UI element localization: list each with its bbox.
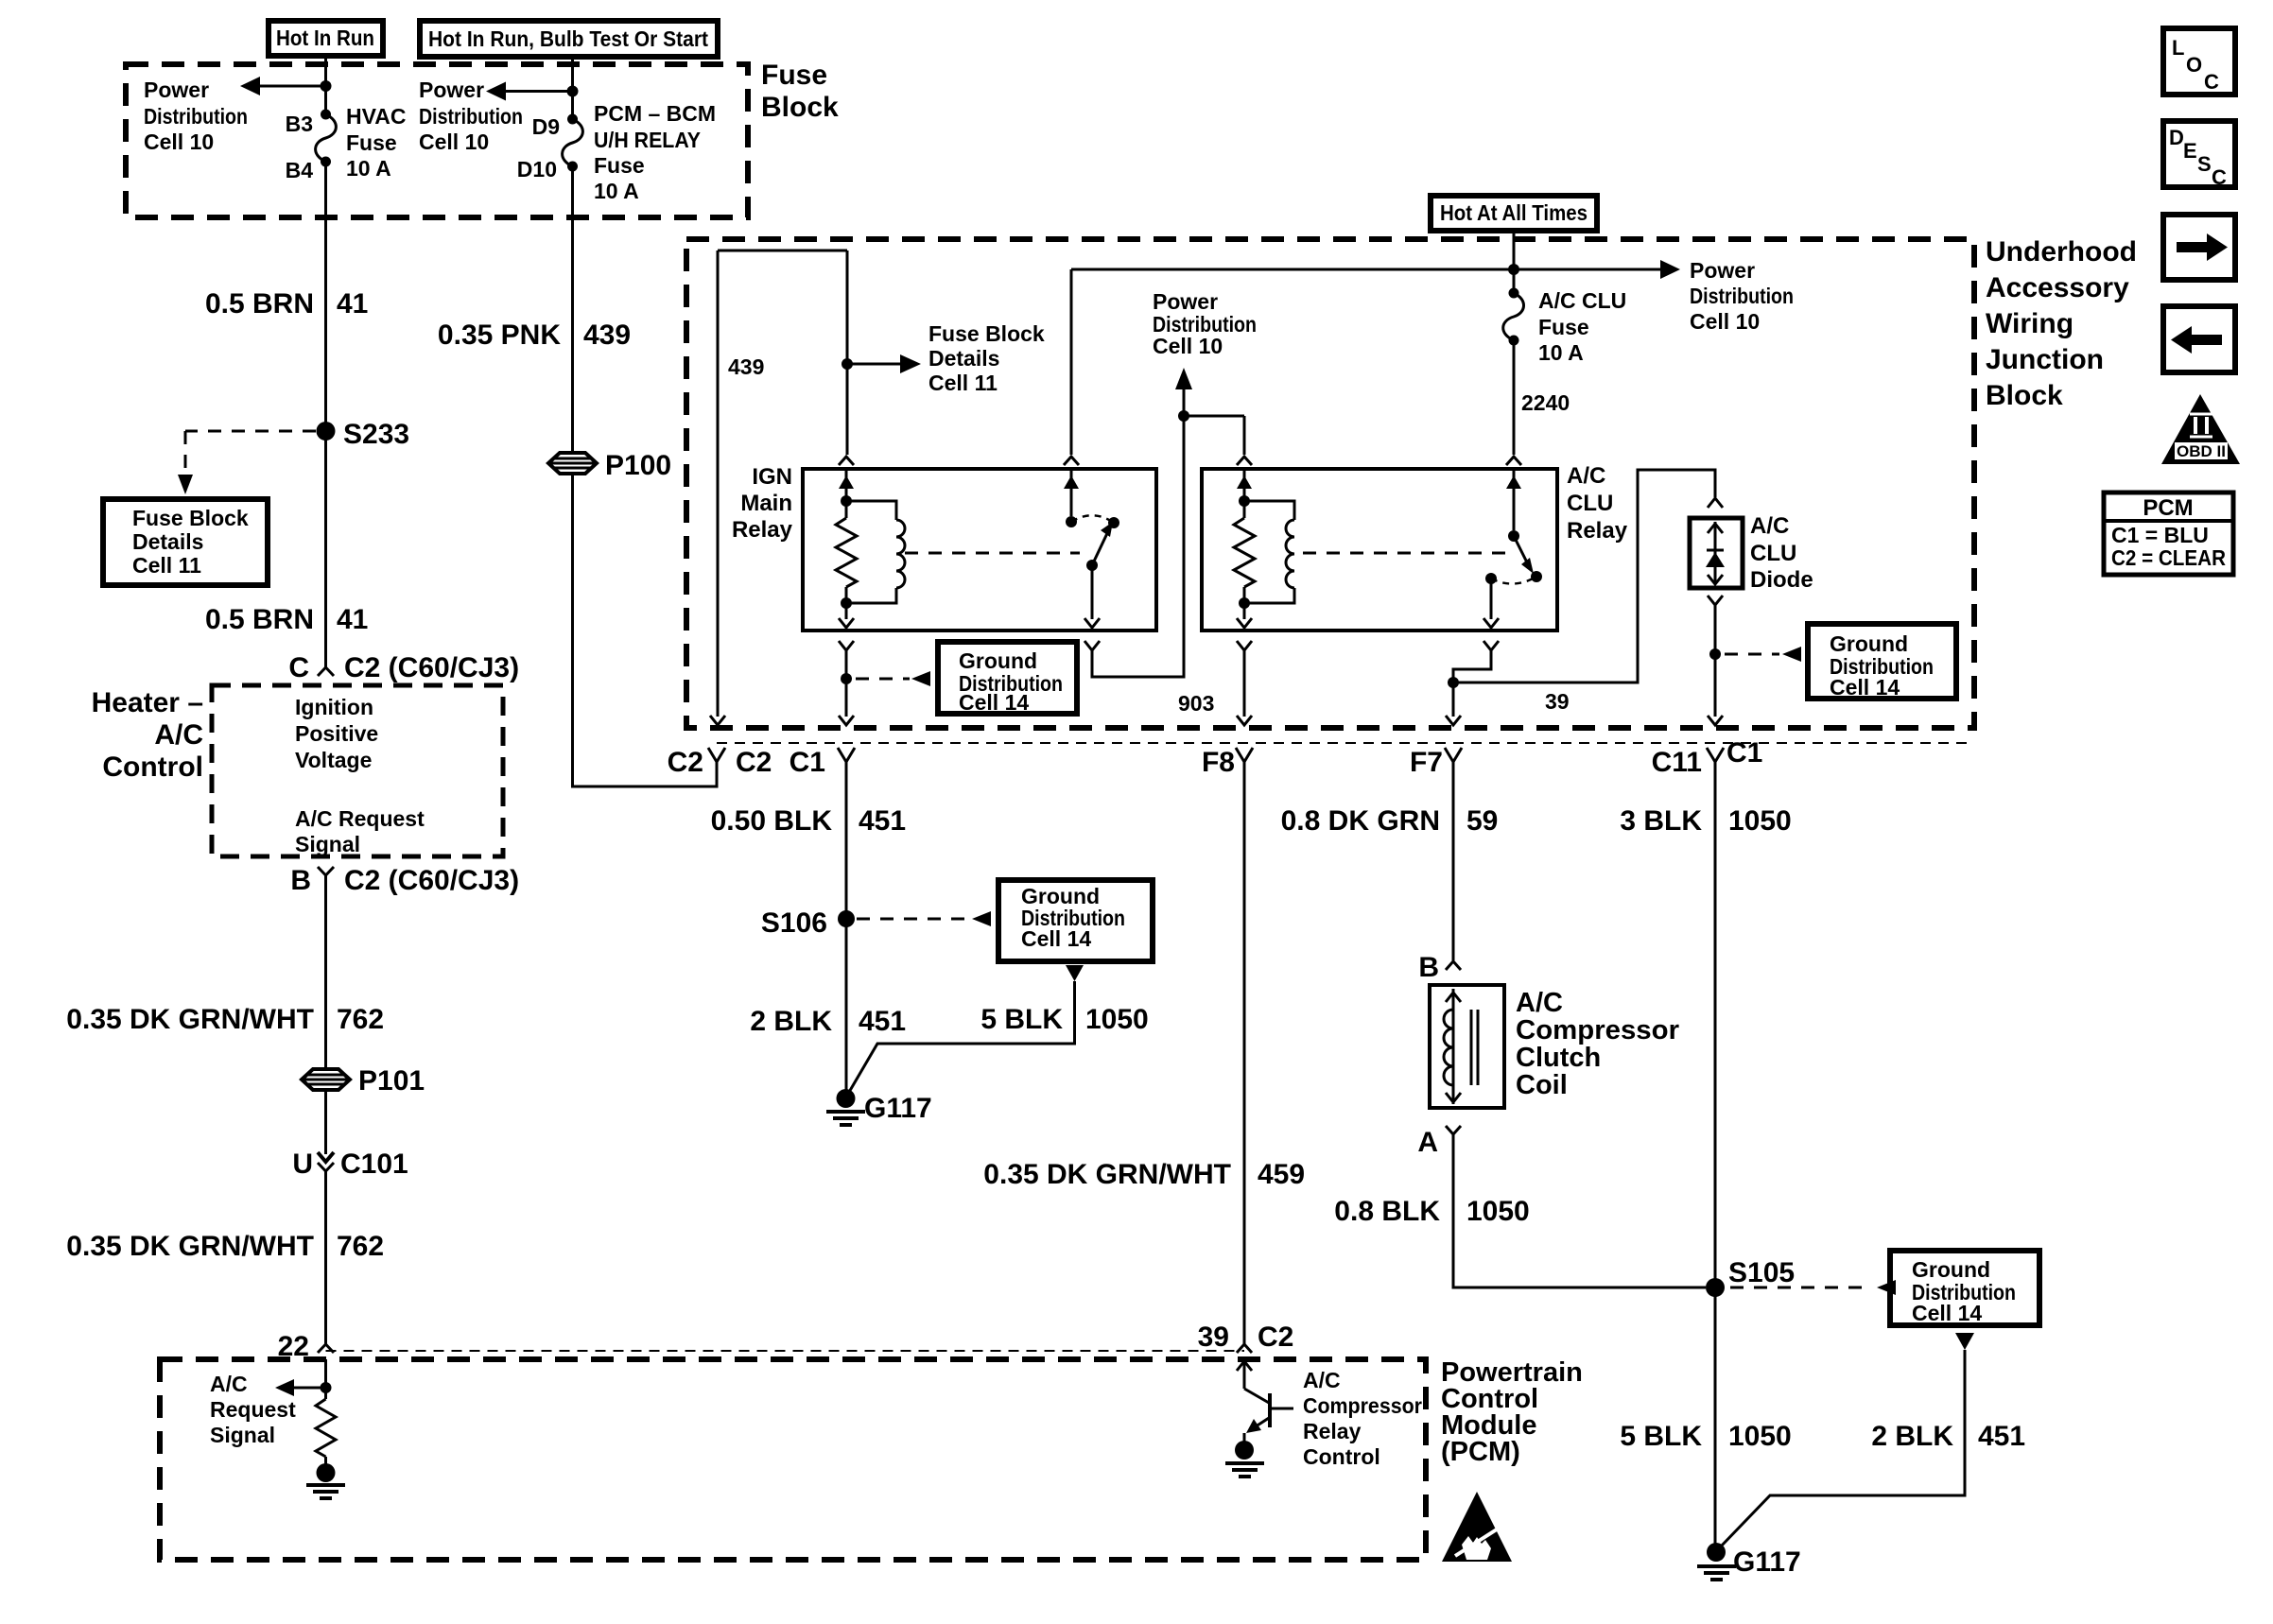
svg-text:PCM – BCM: PCM – BCM [594, 101, 716, 126]
label: 0.8 BLK 1050 [1334, 1196, 1529, 1227]
svg-text:Fuse: Fuse [1538, 315, 1589, 339]
svg-text:C2: C2 [1258, 1322, 1293, 1353]
wire: 3 BLK 1050 [1714, 761, 1717, 1287]
coil: IGN relay winding [841, 501, 905, 609]
svg-text:0.35 PNK: 0.35 PNK [438, 320, 561, 351]
coil: A/C relay winding [1239, 501, 1294, 609]
svg-text:Ground: Ground [1830, 631, 1908, 656]
svg-text:E: E [2183, 139, 2197, 163]
fuse block dashed box [126, 64, 748, 217]
svg-text:C2 = CLEAR: C2 = CLEAR [2111, 545, 2226, 570]
svg-text:41: 41 [337, 288, 368, 320]
svg-text:C1 = BLU: C1 = BLU [2111, 523, 2209, 547]
label: Heater - A/C Control [92, 687, 203, 783]
label: A/C CLU Relay [1567, 463, 1628, 544]
dashed reference: ground distribution (diode) [1725, 647, 1801, 662]
svg-text:A/C: A/C [1303, 1368, 1341, 1392]
svg-text:Cell 10: Cell 10 [1153, 334, 1223, 358]
pin: IGN relay switch top [1064, 457, 1079, 465]
box: Ground Distribution Cell 14 (diode) [1808, 624, 1956, 700]
svg-text:S105: S105 [1728, 1257, 1795, 1288]
pin A of clutch coil [1417, 1126, 1461, 1158]
svg-text:903: 903 [1178, 691, 1214, 716]
svg-text:Signal: Signal [210, 1423, 275, 1447]
ground: transistor emitter [1225, 1433, 1264, 1477]
wire: 2240 [1513, 340, 1516, 455]
svg-text:A/C: A/C [210, 1372, 248, 1396]
svg-text:U: U [292, 1149, 313, 1180]
label: 0.35 DK GRN/WHT 459 [983, 1159, 1305, 1190]
svg-text:Fuse Block: Fuse Block [928, 321, 1045, 346]
label: Powertrain Control Module (PCM) [1441, 1357, 1583, 1467]
svg-text:S: S [2197, 152, 2212, 176]
svg-text:Distribution: Distribution [1690, 284, 1794, 308]
wire: P100 down and over to junction block C2 [573, 475, 718, 786]
pin B of connector C2 (C60/CJ3) [290, 865, 519, 896]
svg-text:10 A: 10 A [594, 179, 639, 203]
svg-text:A/C: A/C [1567, 463, 1605, 489]
label: 2 BLK 451 [750, 1006, 906, 1037]
svg-text:Hot In Run, Bulb Test Or Start: Hot In Run, Bulb Test Or Start [428, 26, 708, 51]
icon: right arrow box [2163, 215, 2235, 280]
ground G117 (right) [1697, 1543, 1801, 1580]
label: A/C Compressor Relay Control [1303, 1368, 1422, 1469]
label: 0.35 PNK 439 [438, 320, 631, 351]
svg-text:Cell 14: Cell 14 [1830, 675, 1900, 700]
arrow: power distribution cell 10 (middle, up) [1175, 368, 1192, 416]
pin F8 of junction block [1202, 747, 1253, 778]
wire: 0.5 BRN 41 (fuse to S233) [324, 162, 327, 431]
svg-text:Request: Request [210, 1397, 296, 1422]
label: A/C CLU Fuse 10 A [1538, 288, 1626, 365]
svg-text:Cell 14: Cell 14 [1021, 926, 1091, 951]
svg-text:C: C [288, 652, 309, 683]
svg-text:0.8 DK GRN: 0.8 DK GRN [1281, 805, 1440, 837]
svg-text:S106: S106 [761, 907, 827, 939]
svg-text:HVAC: HVAC [346, 104, 406, 129]
ESD warning triangle [1442, 1492, 1512, 1562]
svg-text:B: B [290, 865, 311, 896]
coil L1: A/C Compressor Clutch Coil [1430, 985, 1504, 1108]
svg-text:Cell 11: Cell 11 [928, 371, 998, 395]
label: A/C CLU Diode [1750, 513, 1813, 593]
Heater A/C Control dashed box [212, 685, 503, 856]
box: Fuse Block Details Cell 11 (left) [103, 499, 268, 585]
wire: 0.8 DK GRN 59 [1452, 761, 1455, 960]
svg-text:Positive: Positive [295, 721, 378, 746]
svg-text:Cell 10: Cell 10 [1690, 309, 1760, 334]
label: Ignition Positive Voltage [295, 695, 378, 772]
svg-text:451: 451 [859, 1006, 906, 1037]
svg-text:D10: D10 [517, 157, 557, 181]
svg-text:C: C [2204, 70, 2219, 94]
resistor: IGN relay (parallel) [836, 501, 857, 603]
wire: 39 branch to A/C CLU diode [1453, 470, 1715, 682]
svg-text:Compressor: Compressor [1516, 1015, 1679, 1045]
dashed reference: ground distribution (IGN relay) [856, 671, 930, 686]
IGN relay coil feed (inside) [839, 469, 854, 507]
ground G117 (middle) [826, 1089, 932, 1125]
svg-text:Cell 14: Cell 14 [959, 690, 1029, 715]
A/C relay coil feed (inside) [1237, 469, 1252, 507]
IGN relay switch feed (inside) [1064, 469, 1079, 516]
label: 0.5 BRN 41 (second) [205, 604, 368, 635]
pin B of clutch coil [1418, 952, 1461, 983]
label: Power Distribution Cell 10 (right) [1690, 258, 1794, 334]
svg-text:A/C CLU: A/C CLU [1538, 288, 1626, 313]
svg-text:Cell 10: Cell 10 [144, 130, 214, 154]
svg-text:(PCM): (PCM) [1441, 1437, 1520, 1467]
label: Power Distribution Cell 10 (PCM-BCM side) [419, 78, 523, 154]
banner: Hot In Run, Bulb Test Or Start [420, 21, 718, 57]
svg-text:59: 59 [1466, 805, 1498, 837]
svg-text:0.5 BRN: 0.5 BRN [205, 604, 314, 635]
wire: PCM-BCM fuse feed [567, 57, 579, 119]
dashed reference: ground distribution (S106) [857, 911, 991, 926]
svg-text:U/H RELAY: U/H RELAY [594, 128, 701, 152]
svg-text:B: B [1418, 952, 1439, 983]
wire: 0.35 DK GRN/WHT 459 [1243, 761, 1246, 1344]
A/C relay coil ground leg to F8 [1237, 603, 1252, 725]
wire: 5 BLK 1050 to G117 [1714, 1287, 1717, 1548]
wire: 0.35 PNK 439 to P100 [571, 166, 574, 452]
svg-text:Distribution: Distribution [144, 104, 248, 129]
svg-text:39: 39 [1198, 1322, 1229, 1353]
label: 2 BLK 451 (right) [1871, 1421, 2025, 1452]
label: Power Distribution Cell 10 (middle) [1153, 289, 1257, 358]
fuse: A/C CLU 10A [1503, 288, 1524, 346]
svg-text:Ground: Ground [1912, 1257, 1990, 1282]
pin C1 of junction block (451) [789, 747, 855, 778]
svg-text:F7: F7 [1410, 747, 1443, 778]
svg-text:0.35 DK GRN/WHT: 0.35 DK GRN/WHT [66, 1231, 314, 1262]
label: Underhood Accessory Wiring Junction Block [1986, 236, 2137, 411]
label: 5 BLK 1050 (right) [1620, 1421, 1791, 1452]
svg-text:Fuse Block: Fuse Block [132, 506, 249, 530]
relay U2: A/C CLU Relay box [1202, 469, 1557, 631]
hot feed bus (horizontal) [1071, 264, 1662, 275]
dashed actuator link: A/C relay [1303, 552, 1508, 555]
label: 0.35 DK GRN/WHT 762 [66, 1004, 384, 1035]
pass-through grommet P100 [548, 450, 671, 481]
svg-text:S233: S233 [343, 419, 409, 450]
svg-text:Coil: Coil [1516, 1070, 1568, 1100]
wire: hot in run feed into fuse block [321, 56, 332, 114]
connector C101 pin U [292, 1149, 408, 1180]
svg-text:B3: B3 [286, 112, 313, 136]
transistor Q1: A/C compressor relay driver [1237, 1359, 1293, 1433]
table: PCM connector colors [2104, 492, 2233, 575]
svg-text:439: 439 [583, 320, 631, 351]
svg-text:Power: Power [144, 78, 209, 102]
banner: Hot At All Times [1431, 196, 1597, 231]
wire: 0.35 DK GRN/WHT 762 (lower) [324, 1171, 327, 1344]
svg-text:P100: P100 [605, 450, 671, 481]
label: 0.50 BLK 451 [711, 805, 906, 837]
pin: diode bottom [1708, 596, 1723, 605]
switch: IGN relay contacts [1066, 515, 1119, 571]
svg-text:B4: B4 [286, 158, 314, 182]
A/C relay switch output leg to F7 [1446, 579, 1499, 725]
resistor: A/C request pull-up [316, 1399, 336, 1457]
label: PCM-BCM U/H RELAY Fuse 10 A [594, 101, 716, 203]
pin F7 of junction block [1410, 747, 1462, 778]
wire: 0.8 BLK 1050 to S105 [1453, 1134, 1706, 1287]
icon: OBD II triangle [2161, 394, 2240, 464]
arrow: power distribution cell 10 (left, PCM-BCM) [486, 82, 573, 101]
svg-text:G117: G117 [864, 1093, 932, 1124]
PCM dashed box [160, 1359, 1426, 1560]
label: A/C Compressor Clutch Coil [1516, 988, 1679, 1100]
svg-text:Hot In Run: Hot In Run [276, 26, 374, 50]
svg-text:Control: Control [1303, 1444, 1380, 1469]
svg-text:Details: Details [132, 529, 203, 554]
pin 22 of PCM [278, 1331, 334, 1362]
pin: diode top [1708, 498, 1723, 508]
svg-text:39: 39 [1545, 689, 1570, 714]
svg-text:L: L [2172, 36, 2184, 60]
svg-text:IGN: IGN [752, 464, 792, 490]
wire: 903 feed to A/C relay coil [1184, 415, 1244, 418]
svg-text:Heater –: Heater – [92, 687, 203, 718]
svg-text:5 BLK: 5 BLK [1620, 1421, 1702, 1452]
svg-text:A/C: A/C [1516, 988, 1563, 1018]
wire: into PCM request input [321, 1359, 332, 1399]
svg-text:CLU: CLU [1750, 541, 1796, 566]
svg-text:Power: Power [1690, 258, 1755, 283]
diode D1: A/C CLU Diode [1690, 518, 1743, 588]
splice S105 [1706, 1257, 1795, 1297]
svg-text:C11: C11 [1652, 747, 1702, 778]
dashed reference wire to fuse block details [178, 431, 316, 494]
svg-text:A: A [1417, 1127, 1438, 1158]
label: Power Distribution Cell 10 (HVAC side) [144, 78, 248, 154]
dashed actuator link: IGN relay [905, 552, 1080, 555]
wire: 5 BLK 1050 from ground box [848, 965, 1084, 1094]
icon: left arrow box [2163, 306, 2235, 372]
svg-text:41: 41 [337, 604, 368, 635]
svg-text:Compressor: Compressor [1303, 1393, 1422, 1418]
splice S233 [317, 419, 410, 450]
pin 39 / C2 of PCM [1198, 1322, 1294, 1353]
svg-text:Accessory: Accessory [1986, 272, 2129, 303]
wire: 2 BLK 451 from ground box to G117 [1720, 1333, 1974, 1547]
svg-text:D9: D9 [532, 114, 560, 139]
switch: A/C relay contacts [1485, 530, 1542, 584]
IGN relay coil ground leg [839, 603, 854, 725]
svg-text:439: 439 [728, 354, 764, 379]
wire: 0.5 BRN 41 (S233 to C2) [324, 431, 327, 667]
icon: DESC box [2163, 121, 2235, 189]
box: Ground Distribution Cell 14 (IGN relay) [938, 642, 1077, 715]
thin dashed connector line (junction block) [717, 742, 1974, 744]
banner: Hot In Run [269, 21, 383, 56]
svg-text:Main: Main [740, 491, 792, 516]
svg-text:Block: Block [1986, 380, 2063, 411]
label: 3 BLK 1050 [1620, 805, 1791, 837]
svg-text:1050: 1050 [1728, 1421, 1792, 1452]
svg-text:Power: Power [419, 78, 484, 102]
box: Ground Distribution Cell 14 (S106) [998, 880, 1153, 961]
svg-text:Signal: Signal [295, 832, 360, 856]
label: 0.5 BRN 41 [205, 288, 368, 320]
svg-text:2 BLK: 2 BLK [1871, 1421, 1953, 1452]
svg-text:451: 451 [859, 805, 906, 837]
box: Ground Distribution Cell 14 (S105) [1890, 1251, 2039, 1325]
IGN relay switch output leg (903) [1084, 410, 1189, 677]
wire: 0.35 DK GRN/WHT 762 (upper) [324, 875, 327, 1068]
svg-text:0.35 DK GRN/WHT: 0.35 DK GRN/WHT [66, 1004, 314, 1035]
svg-text:Block: Block [761, 92, 839, 123]
fuse HVAC B3/B4 [316, 110, 337, 167]
svg-text:O: O [2186, 53, 2202, 77]
svg-text:762: 762 [337, 1004, 384, 1035]
thin dashed connector line (PCM) [326, 1350, 1245, 1352]
dashed reference: ground distribution (S105) [1730, 1280, 1896, 1295]
pin: A/C relay switch top [1506, 457, 1521, 465]
svg-text:F8: F8 [1202, 747, 1235, 778]
label: 0.35 DK GRN/WHT 762 (second) [66, 1231, 384, 1262]
svg-text:Cell 11: Cell 11 [132, 553, 201, 578]
svg-text:Relay: Relay [1567, 518, 1628, 544]
A/C relay switch feed (inside) [1506, 469, 1521, 530]
svg-text:0.50 BLK: 0.50 BLK [711, 805, 833, 837]
svg-text:Power: Power [1153, 289, 1218, 314]
svg-text:P101: P101 [358, 1065, 425, 1097]
svg-text:0.8 BLK: 0.8 BLK [1334, 1196, 1440, 1227]
svg-text:A/C Request: A/C Request [295, 806, 425, 831]
wire 439 inside junction block [710, 251, 853, 725]
resistor: A/C relay (parallel) [1234, 501, 1255, 603]
svg-text:1050: 1050 [1466, 1196, 1530, 1227]
relay U1: IGN Main Relay box [803, 469, 1156, 631]
arrow: fuse block details cell 11 (right) [847, 354, 921, 373]
svg-text:Relay: Relay [732, 517, 793, 543]
svg-text:0.5 BRN: 0.5 BRN [205, 288, 314, 320]
pin: A/C relay coil top [1237, 457, 1252, 465]
svg-text:2 BLK: 2 BLK [750, 1006, 832, 1037]
svg-text:A/C: A/C [1750, 513, 1789, 539]
fuse PCM-BCM U/H RELAY D9/D10 [563, 114, 583, 172]
svg-text:Voltage: Voltage [295, 748, 372, 772]
svg-text:0.35 DK GRN/WHT: 0.35 DK GRN/WHT [983, 1159, 1231, 1190]
arrow: A/C request signal (left) [275, 1379, 326, 1396]
svg-text:PCM: PCM [2143, 495, 2193, 521]
svg-text:Wiring: Wiring [1986, 308, 2073, 339]
svg-text:1050: 1050 [1085, 1004, 1149, 1035]
svg-text:C1: C1 [1726, 737, 1762, 769]
svg-text:Fuse: Fuse [594, 153, 645, 178]
label: IGN Main Relay [732, 464, 793, 543]
svg-text:459: 459 [1258, 1159, 1305, 1190]
svg-text:Underhood: Underhood [1986, 236, 2137, 268]
svg-text:Ignition: Ignition [295, 695, 373, 719]
svg-text:OBD II: OBD II [2177, 442, 2226, 460]
svg-text:Clutch: Clutch [1516, 1043, 1601, 1073]
svg-text:Details: Details [928, 346, 999, 371]
label: HVAC Fuse 10 A [346, 104, 406, 181]
pass-through grommet P101 [302, 1065, 425, 1097]
svg-text:Junction: Junction [1986, 344, 2104, 375]
svg-text:C2 (C60/CJ3): C2 (C60/CJ3) [344, 652, 519, 683]
icon: LOC box [2163, 28, 2235, 95]
wire: 0.50 BLK 451 [838, 761, 855, 1097]
svg-text:10 A: 10 A [346, 156, 391, 181]
svg-text:Fuse: Fuse [346, 130, 397, 155]
label: A/C Request Signal (heater box) [295, 806, 425, 856]
svg-text:1050: 1050 [1728, 805, 1792, 837]
pin C11 / C1 of junction block [1652, 737, 1763, 778]
arrow: power distribution cell 10 (left, HVAC) [240, 77, 326, 95]
svg-text:762: 762 [337, 1231, 384, 1262]
svg-text:Cell 10: Cell 10 [419, 130, 489, 154]
svg-text:C2: C2 [736, 747, 772, 778]
svg-text:A/C: A/C [154, 719, 203, 751]
svg-text:C2: C2 [668, 747, 703, 778]
label: Fuse Block Details Cell 11 (middle) [928, 321, 1045, 395]
wire: diode ground leg to C11 [1708, 605, 1723, 725]
pin C2 of junction block (PNK) [668, 747, 772, 778]
svg-text:Cell 14: Cell 14 [1912, 1301, 1982, 1325]
label: 5 BLK 1050 (middle) [980, 1004, 1148, 1035]
svg-text:C2 (C60/CJ3): C2 (C60/CJ3) [344, 865, 519, 896]
svg-text:C: C [2212, 165, 2227, 189]
svg-text:Relay: Relay [1303, 1419, 1362, 1443]
svg-text:10 A: 10 A [1538, 340, 1584, 365]
wire: below P101 [324, 1090, 327, 1154]
svg-text:Control: Control [102, 752, 203, 783]
svg-text:2240: 2240 [1521, 390, 1570, 415]
svg-text:D: D [2169, 126, 2184, 149]
svg-text:Diode: Diode [1750, 567, 1813, 593]
svg-text:451: 451 [1978, 1421, 2025, 1452]
svg-text:Distribution: Distribution [419, 104, 523, 129]
svg-text:Fuse: Fuse [761, 60, 827, 91]
svg-text:C1: C1 [789, 747, 825, 778]
label: Fuse Block [761, 60, 839, 123]
svg-text:C101: C101 [340, 1149, 408, 1180]
svg-text:Hot At All Times: Hot At All Times [1440, 200, 1588, 225]
svg-text:CLU: CLU [1567, 491, 1613, 516]
pin C of connector C2 (C60/CJ3) [288, 652, 519, 683]
junction block dashed box [686, 239, 1974, 728]
wire: IGN switch feed from hot bus [1070, 269, 1073, 455]
svg-text:Ground: Ground [959, 648, 1037, 673]
svg-text:G117: G117 [1733, 1546, 1801, 1578]
pin: IGN relay coil top [839, 457, 854, 465]
ground: PCM request signal [306, 1457, 345, 1498]
svg-text:5 BLK: 5 BLK [980, 1004, 1063, 1035]
arrow: power distribution cell 10 (right) [1660, 260, 1680, 279]
wire: hot at all times drop [1513, 231, 1516, 293]
label: 0.8 DK GRN 59 [1281, 805, 1499, 837]
svg-text:3 BLK: 3 BLK [1620, 805, 1702, 837]
label: A/C Request Signal (PCM) [210, 1372, 296, 1447]
